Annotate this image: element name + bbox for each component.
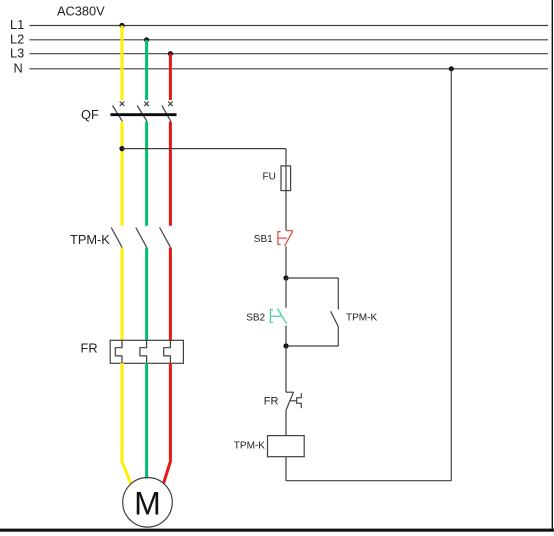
wire phase B (green) TPM-K to FR	[145, 248, 148, 341]
wire L1 bus	[30, 25, 549, 27]
breaker QF pole 3 cross	[168, 102, 173, 107]
coil TPM-K box	[268, 436, 305, 457]
breaker QF pole 3 blade	[162, 106, 171, 122]
contact FR trip link	[290, 400, 296, 402]
relay FR box	[110, 340, 183, 363]
svg-text:L3: L3	[10, 45, 24, 60]
wire phase A (yellow) L1 to QF	[121, 26, 124, 101]
wire bottom run to N riser	[286, 480, 451, 482]
svg-text:FR: FR	[81, 341, 98, 356]
svg-text:SB2: SB2	[246, 312, 265, 323]
svg-text:TPM-K: TPM-K	[70, 232, 110, 247]
pushbutton SB2 actuator bracket	[270, 310, 273, 323]
svg-text:FU: FU	[263, 172, 276, 183]
svg-text:AC380V: AC380V	[57, 4, 105, 19]
breaker QF pole 1 cross	[120, 102, 125, 107]
svg-text:N: N	[14, 60, 23, 75]
svg-text:FR: FR	[264, 396, 279, 408]
wire control drop to FU	[285, 149, 287, 166]
contact FR NC jog	[286, 391, 294, 393]
breaker QF pole 2 cross	[144, 102, 149, 107]
contactor TPM-K pole 2 blade	[136, 228, 147, 248]
relay FR heater element 3	[164, 340, 171, 363]
wire node to SB2	[285, 278, 287, 308]
contact FR trip element	[297, 393, 302, 408]
wire FR contact to coil	[285, 410, 287, 435]
node L3 tap	[168, 51, 173, 56]
wire L2 bus	[30, 39, 549, 41]
pushbutton SB2 (NO, green) blade	[277, 308, 286, 323]
pushbutton SB1 (NC, red) fixed bar	[286, 230, 293, 232]
node L1 tap	[119, 23, 124, 28]
pushbutton SB2 actuator link	[270, 315, 281, 317]
wire phase C (red) FR to motor	[164, 363, 171, 483]
wire phase C (red) L3 to QF	[169, 54, 172, 100]
wire L3 bus	[30, 53, 549, 55]
wire phase B (green) QF to TPM-K	[145, 122, 148, 226]
node L2 tap	[144, 37, 149, 42]
border bottom edge	[0, 529, 554, 532]
wire phase A (yellow) TPM-K to FR	[121, 248, 124, 341]
wire branch right lower	[337, 326, 339, 346]
svg-text:M: M	[134, 485, 161, 521]
fuse FU internal wire	[285, 166, 287, 191]
wire branch right drop	[337, 278, 339, 310]
node branch top	[283, 275, 288, 280]
node control tap on phase A	[119, 146, 124, 151]
wire phase B (green) L2 to QF	[145, 40, 148, 100]
wire phase C (red) TPM-K to FR	[169, 248, 172, 341]
wire SB2 to branch bottom node	[285, 326, 287, 347]
contact TPM-K aux blade	[331, 311, 339, 326]
pushbutton SB1 actuator bracket	[278, 232, 281, 245]
breaker QF pole 2 blade	[137, 106, 147, 122]
pushbutton SB1 blade	[285, 231, 293, 247]
wire phase C (red) QF to TPM-K	[169, 122, 172, 226]
contactor TPM-K pole 1 blade	[111, 228, 122, 248]
relay FR heater element 1	[115, 340, 122, 363]
relay FR heater element 2	[140, 340, 147, 363]
wire N bus	[30, 68, 549, 70]
wire N riser	[450, 69, 452, 481]
wire SB1 to branch node	[285, 247, 287, 279]
svg-text:TPM-K: TPM-K	[234, 440, 265, 451]
node branch bottom	[283, 343, 288, 348]
wire coil to bottom run	[285, 457, 287, 481]
pushbutton SB1 actuator link	[278, 237, 287, 239]
wire branch top horizontal	[286, 277, 338, 279]
breaker QF pole 1 blade	[113, 106, 123, 122]
svg-text:L1: L1	[10, 17, 24, 32]
motor M circle	[123, 478, 173, 528]
svg-text:TPM-K: TPM-K	[346, 313, 377, 324]
svg-text:QF: QF	[81, 107, 99, 122]
svg-text:SB1: SB1	[254, 234, 273, 245]
contactor TPM-K pole 3 blade	[160, 228, 171, 248]
breaker QF linkage bar	[110, 113, 176, 116]
wire branch bottom horizontal	[286, 345, 338, 347]
wire control tap to FU branch	[122, 148, 286, 150]
svg-text:L2: L2	[10, 31, 24, 46]
node N tap	[449, 66, 454, 71]
wire FU to SB1	[285, 191, 287, 231]
wire phase A (yellow) QF to TPM-K	[121, 122, 124, 226]
contact FR NC blade	[286, 392, 294, 410]
wire node to FR contact	[285, 346, 287, 392]
border right edge	[552, 0, 553, 532]
wire phase B (green) FR to motor	[145, 363, 148, 479]
wire phase A (yellow) FR to motor	[122, 363, 131, 483]
fuse FU body	[281, 166, 291, 191]
